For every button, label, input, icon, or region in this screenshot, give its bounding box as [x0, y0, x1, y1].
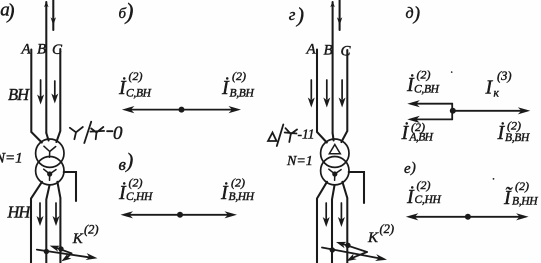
svg-text:C: C — [341, 44, 352, 60]
svg-text:A: A — [21, 42, 32, 58]
Y symbol with neutral dot in LV circle g — [329, 169, 341, 180]
wire phase B LV g — [332, 185, 335, 263]
connector vertical d — [451, 104, 453, 120]
svg-text:С,НН: С,НН — [415, 194, 442, 206]
phasor arrow lower-left d — [407, 116, 452, 123]
svg-text:I: I — [485, 77, 494, 99]
phasor double arrow e) — [406, 213, 529, 220]
wire phase B HV lower — [46, 133, 48, 141]
svg-text:(2): (2) — [507, 119, 521, 133]
speck — [493, 178, 495, 180]
svg-text:К: К — [72, 231, 84, 247]
svg-text:НН: НН — [7, 203, 32, 222]
wire phase C LV g — [342, 182, 347, 263]
wire phase B HV lower g — [333, 133, 334, 141]
svg-text:г: г — [289, 5, 296, 24]
wire top pair left (phase B feed) — [45, 2, 47, 133]
wire phase A LV — [31, 182, 42, 263]
winding connection symbol Y/Y0-0 — [70, 122, 113, 143]
svg-text:): ) — [124, 0, 134, 24]
Y symbol in HV circle — [44, 146, 56, 157]
wire phase A LV g — [317, 182, 327, 263]
svg-text:С,ВН: С,ВН — [414, 84, 440, 96]
wire phase C LV — [57, 182, 60, 263]
svg-text:В,НН: В,НН — [512, 196, 538, 208]
fault node on C g — [345, 243, 350, 248]
svg-text:(2): (2) — [129, 176, 143, 190]
svg-text:(2): (2) — [231, 176, 245, 190]
label v) — [119, 149, 134, 175]
svg-text:(2): (2) — [232, 69, 246, 83]
label d) — [406, 4, 421, 25]
wire phase A HV — [31, 50, 42, 143]
svg-text:(3): (3) — [497, 69, 512, 83]
label b) — [119, 0, 134, 24]
current arrow B LV g — [323, 203, 330, 227]
fault node on B — [44, 249, 49, 254]
arrow down on stub g — [337, 17, 342, 25]
wire phase B LV — [46, 185, 49, 263]
fault barb upper g — [336, 242, 367, 252]
wire top pair right (phase B feed) — [332, 2, 334, 133]
svg-text:А,ВН: А,ВН — [409, 132, 434, 144]
svg-text:-11: -11 — [298, 127, 315, 142]
phasor arrow right d (3-phase current) — [453, 107, 531, 114]
label K(2) left — [72, 223, 99, 248]
current arrow B LV — [37, 203, 44, 226]
fault K(2) left: long arrow — [37, 250, 98, 260]
winding connection symbol D/Y0-11 — [268, 125, 297, 147]
svg-text:C: C — [52, 42, 63, 58]
svg-text:): ) — [125, 149, 133, 173]
phasor double arrow b) — [122, 106, 241, 113]
current label I_C,HH^(2) e — [406, 178, 441, 208]
current label I_B,HH^(2) — [220, 176, 255, 205]
current label I_k^(3) — [485, 69, 512, 100]
current label I_B,BH^(2) d — [497, 119, 531, 145]
wire top right stub g — [339, 0, 341, 30]
fault barb upper — [50, 246, 72, 254]
svg-text:N=1: N=1 — [0, 151, 23, 167]
phasor arrow upper-left d — [407, 100, 452, 107]
svg-text:): ) — [296, 3, 304, 27]
wire phase C HV g — [341, 50, 347, 142]
current label I_C,BH^(2) d — [406, 68, 440, 97]
svg-text:(2): (2) — [129, 69, 143, 83]
fault barb lower — [61, 253, 71, 261]
label g) — [289, 3, 304, 27]
svg-text:(2): (2) — [417, 68, 431, 82]
svg-text:(2): (2) — [515, 179, 529, 193]
fault barb lower g — [346, 252, 367, 261]
arrow up on feed wire — [44, 1, 49, 7]
Y symbol with neutral dot in LV circle — [44, 169, 56, 180]
svg-text:В,ВН: В,ВН — [230, 88, 255, 100]
current label I_B,BH^(2) — [221, 69, 255, 100]
svg-text:): ) — [7, 0, 15, 23]
current arrow C LV — [53, 203, 60, 226]
label e) — [404, 160, 416, 177]
delta symbol in HV circle — [329, 145, 340, 154]
svg-text:В,ВН: В,ВН — [505, 132, 530, 144]
svg-text:е: е — [404, 161, 411, 177]
svg-text:): ) — [413, 4, 420, 25]
current label I_C,HH^(2) — [118, 176, 153, 205]
current arrow C HV g — [339, 80, 346, 108]
label K(2) right — [367, 222, 394, 246]
wire phase C HV — [56, 49, 60, 142]
svg-text:(2): (2) — [84, 223, 99, 237]
svg-text:(2): (2) — [380, 222, 395, 236]
svg-text:B: B — [324, 43, 333, 59]
svg-text:С,ВН: С,ВН — [126, 88, 152, 100]
fault node on B g — [330, 247, 335, 252]
current label I_C,BH^(2) — [118, 69, 152, 100]
svg-text:в: в — [119, 155, 127, 174]
svg-text:С,НН: С,НН — [126, 191, 153, 203]
svg-text:ВН: ВН — [8, 85, 30, 104]
phasor double arrow v) — [121, 211, 238, 218]
current arrow B HV — [37, 80, 44, 105]
transformer T1 LV winding circle — [36, 157, 64, 185]
current label I_A,BH^(2) d — [401, 120, 434, 144]
current arrow C HV — [51, 81, 58, 104]
transformer T2 LV winding circle — [321, 157, 349, 185]
fault node on C — [58, 246, 63, 251]
transformer T2 HV winding circle — [321, 139, 349, 167]
current arrow C LV g — [338, 203, 345, 227]
svg-text:0: 0 — [113, 123, 123, 144]
current label I_B,HH^(2) e — [503, 179, 538, 209]
svg-text:В,НН: В,НН — [229, 191, 255, 203]
svg-text:A: A — [306, 42, 317, 58]
svg-text:д: д — [406, 5, 414, 22]
svg-text:(2): (2) — [417, 178, 431, 192]
svg-text:N=1: N=1 — [286, 154, 313, 169]
wire neutral stub T2 — [349, 172, 364, 203]
svg-text:К: К — [367, 230, 379, 246]
fault K(2) right: long arrow — [322, 248, 387, 262]
svg-text:İ: İ — [401, 121, 410, 144]
wire top right stub — [52, 0, 54, 30]
svg-text:B: B — [37, 42, 46, 58]
label a) — [0, 0, 14, 23]
transformer T1 HV winding circle — [36, 139, 64, 167]
svg-text:): ) — [410, 160, 416, 176]
node dot d — [450, 108, 456, 114]
speck 2 — [451, 71, 453, 73]
current arrow A HV g — [308, 80, 315, 108]
wire phase A HV g — [317, 50, 327, 143]
arrow down on stub — [51, 17, 56, 25]
current arrow B HV g — [323, 80, 330, 108]
arrow up on feed wire g — [330, 1, 335, 7]
wire neutral stub T1 — [64, 172, 76, 201]
